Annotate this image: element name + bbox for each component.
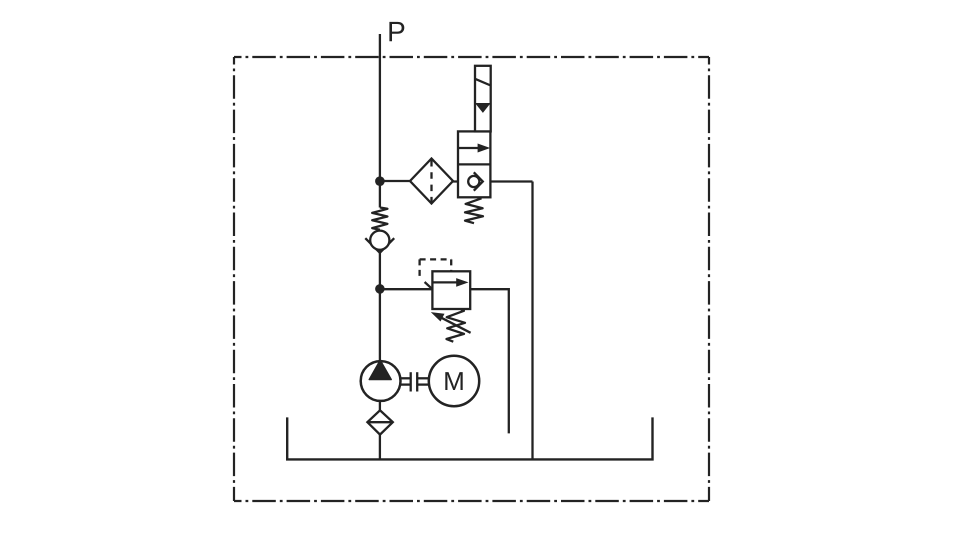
coupling bar left [410,372,412,391]
wire: line between check valve V1 and junction B, down to pump [379,252,381,363]
wire: strainer to tank bottom [379,435,381,460]
pump P1 circle [361,361,401,401]
solenoid actuator S1 triangle [475,103,491,113]
junction node B [375,284,385,294]
filter F1 element (dashed) [430,160,432,202]
check valve V1 spring [372,208,387,230]
relief valve RV1 spring [447,309,466,341]
junction node A [375,176,385,186]
motor M1 label [445,372,462,390]
relief valve RV1 body [432,271,470,309]
wire: junction B to relief valve RV1 [380,288,433,290]
enclosure boundary (power unit, dash-dot) [234,57,709,501]
suction strainer S2 body [367,410,392,434]
wire: solenoid valve return line down to tank [531,182,533,460]
check valve V1 seat [365,238,394,253]
pilot line tap (diagonal) [425,282,433,289]
solenoid valve U1 return spring [465,198,483,223]
solenoid valve U1 check ball (bottom box) [468,176,479,187]
suction strainer S2 screen [367,421,392,423]
drive shaft pump side [401,377,411,379]
solenoid valve U1 body [458,131,490,197]
solenoid actuator S1 coil diagonal [475,79,491,86]
solenoid valve U1 check seat [474,172,483,190]
motor M1 circle [429,356,479,406]
relief valve RV1 adjustment arrow [442,318,471,333]
solenoid actuator S1 frame [475,66,491,132]
wire: relief valve outlet to tank [470,289,509,433]
wire: filter F1 to solenoid valve, through valve to return drop [453,180,533,182]
drive shaft motor side [417,377,429,379]
wire: pump suction line [379,401,381,411]
check valve V1 ball [370,231,389,250]
pump P1 flow triangle [369,360,391,379]
wire: junction A to filter F1 [380,180,410,182]
tank T1 (reservoir) [287,417,652,459]
wire: pressure line from port P down to junction A [379,34,381,208]
relief valve RV1 flow arrow [433,281,458,283]
filter F1 body [410,159,453,204]
solenoid valve U1 flow arrow (top box) [458,147,479,149]
port label P [389,22,404,41]
pilot box (dashed) above relief valve [418,259,420,280]
coupling bar right [416,372,418,391]
